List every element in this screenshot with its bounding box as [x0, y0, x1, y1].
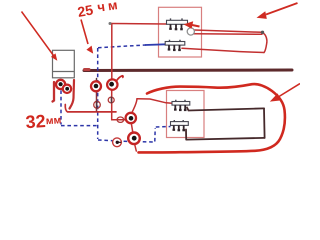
svg-text:чм: чм — [96, 0, 121, 15]
svg-text:мм: мм — [45, 114, 62, 127]
svg-text:25: 25 — [76, 1, 94, 19]
svg-text:32: 32 — [25, 111, 46, 132]
